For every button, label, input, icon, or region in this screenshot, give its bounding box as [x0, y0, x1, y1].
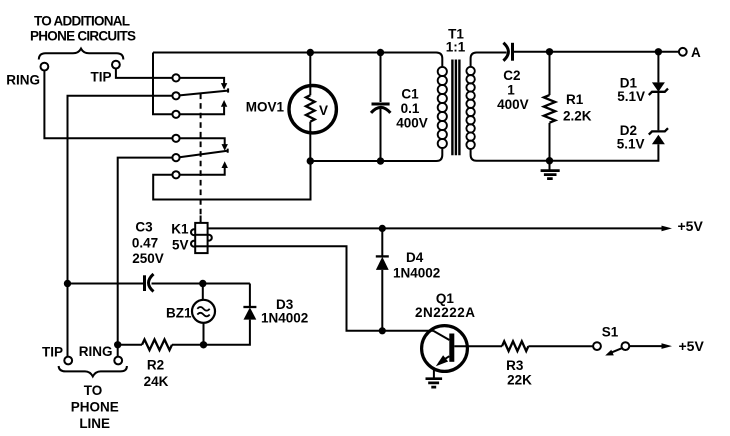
left winding [438, 67, 447, 76]
zener D2 [649, 128, 668, 144]
wire TIP top to contact 1 [116, 69, 172, 78]
svg-text:PHONE: PHONE [71, 400, 119, 415]
svg-text:A: A [691, 45, 701, 60]
svg-text:+5V: +5V [679, 338, 705, 354]
core [452, 60, 459, 156]
svg-text:400V: 400V [497, 97, 529, 112]
svg-text:TO ADDITIONAL: TO ADDITIONAL [34, 14, 130, 29]
svg-text:C2: C2 [503, 68, 520, 83]
svg-text:1N4002: 1N4002 [261, 311, 308, 326]
right winding [466, 67, 474, 75]
svg-text:TO: TO [84, 383, 103, 398]
relay contact 3 [172, 111, 179, 118]
contact5 moving arm [180, 149, 228, 158]
node dot R2 tee [114, 341, 121, 348]
node dot D1 top [655, 48, 662, 55]
svg-text:LINE: LINE [79, 416, 110, 431]
node dot D4 bottom [379, 327, 386, 334]
svg-text:+5V: +5V [678, 218, 704, 234]
resistor R1 [544, 52, 555, 161]
svg-text:R3: R3 [506, 358, 524, 373]
svg-text:V: V [319, 103, 328, 118]
svg-text:0.1: 0.1 [401, 101, 420, 116]
dashed actuator line [200, 94, 202, 217]
MOV1 varistor [289, 53, 336, 162]
base diagonal [433, 331, 449, 340]
diode D3 [204, 284, 256, 345]
svg-text:250V: 250V [132, 251, 164, 266]
svg-text:0.47: 0.47 [132, 236, 158, 251]
svg-text:24K: 24K [144, 374, 169, 389]
svg-text:R1: R1 [566, 92, 584, 107]
capacitor C1 [371, 53, 390, 162]
ground (Q1) [426, 379, 443, 387]
contact3 line and up arrow [180, 107, 225, 115]
svg-text:400V: 400V [396, 116, 428, 131]
wire RING top to contact 4 [44, 71, 172, 139]
svg-text:PHONE CIRCUITS: PHONE CIRCUITS [30, 29, 136, 44]
wire K1 to +5V [208, 227, 662, 229]
wire contact5 to RING vertical down [118, 158, 173, 343]
node dot D4 top [379, 225, 386, 232]
terminal TIP (top) [112, 61, 120, 69]
node dot R1 top [546, 48, 553, 55]
bottom rail right [471, 144, 659, 160]
capacitor C3 [145, 274, 250, 292]
emitter [439, 356, 449, 363]
wire TIP line to C3 [68, 283, 144, 285]
wire contact3 to top rail [153, 53, 172, 115]
switch S1 [593, 342, 629, 355]
contact4 line and down arrow [180, 138, 225, 144]
relay contact 4 [172, 135, 179, 142]
svg-text:2N2222A: 2N2222A [415, 305, 475, 320]
bottom rail left [310, 147, 442, 161]
svg-text:BZ1: BZ1 [166, 306, 192, 321]
wire C2 to A [513, 51, 679, 53]
svg-text:5.1V: 5.1V [617, 136, 645, 151]
relay contact 5 (common) [172, 154, 179, 161]
zener D1 [649, 52, 668, 131]
resistor R2 [118, 340, 200, 351]
contact6 line and up arrow [180, 168, 225, 175]
diode D4 [376, 228, 389, 330]
top rail [153, 53, 442, 68]
capacitor C2 [503, 43, 512, 61]
node dot MOV1 top [307, 49, 314, 56]
svg-text:R2: R2 [147, 358, 164, 373]
wire S1 to +5V [629, 345, 662, 347]
node dot BZ1 bottom [200, 341, 207, 348]
node dot C1 bottom [377, 157, 384, 164]
relay contact 1 [172, 74, 179, 81]
node dot C3 tee [64, 280, 71, 287]
svg-text:TIP: TIP [42, 345, 63, 360]
wire contact6 L to MOV bottom [153, 161, 310, 200]
relay contact 6 [172, 171, 179, 178]
resistor R3 [502, 341, 528, 351]
terminal TIP (bottom) [67, 284, 69, 357]
contact2 moving arm [180, 88, 229, 95]
svg-text:RING: RING [6, 73, 40, 88]
brace bottom [59, 366, 127, 376]
label: TO ADDITIONAL PHONE CIRCUITS [30, 14, 136, 44]
svg-text:5V: 5V [172, 238, 189, 253]
node dot BZ1 top [199, 280, 206, 287]
ground (R1) [541, 161, 560, 179]
svg-text:MOV1: MOV1 [246, 100, 285, 115]
svg-text:22K: 22K [507, 372, 532, 387]
svg-text:K1: K1 [171, 222, 189, 237]
svg-text:2.2K: 2.2K [563, 109, 592, 124]
svg-text:TIP: TIP [90, 70, 111, 85]
svg-text:Q1: Q1 [436, 291, 455, 306]
svg-text:1: 1 [507, 82, 515, 97]
svg-text:1N4002: 1N4002 [393, 266, 440, 281]
svg-text:1:1: 1:1 [446, 40, 466, 55]
brace top [39, 49, 124, 60]
relay contact 2 (common) [172, 92, 179, 99]
svg-text:S1: S1 [602, 324, 619, 339]
terminal RING (bottom) [117, 345, 119, 357]
contact1 arm line and down arrow [180, 78, 225, 84]
base bar [449, 334, 454, 362]
buzzer BZ1 [192, 284, 215, 345]
svg-text:C3: C3 [135, 220, 153, 235]
node dot R1 bottom [546, 157, 553, 164]
top rail right with C2 [471, 53, 507, 67]
terminal RING (top) [41, 63, 49, 71]
relay coil K1 [191, 216, 212, 254]
transformer T1 [438, 27, 475, 156]
svg-text:5.1V: 5.1V [617, 89, 645, 104]
wire contact2 to TIP vertical down [68, 96, 173, 281]
node dot MOV1 bottom [307, 157, 314, 164]
terminal A [679, 48, 687, 56]
svg-text:C1: C1 [401, 87, 419, 102]
transistor Q1 [422, 326, 502, 378]
svg-text:D4: D4 [406, 250, 424, 265]
svg-text:RING: RING [79, 344, 113, 359]
node dot C1 top [377, 49, 384, 56]
wire K1 lower to Q1 base [208, 246, 434, 330]
collector [454, 345, 502, 347]
